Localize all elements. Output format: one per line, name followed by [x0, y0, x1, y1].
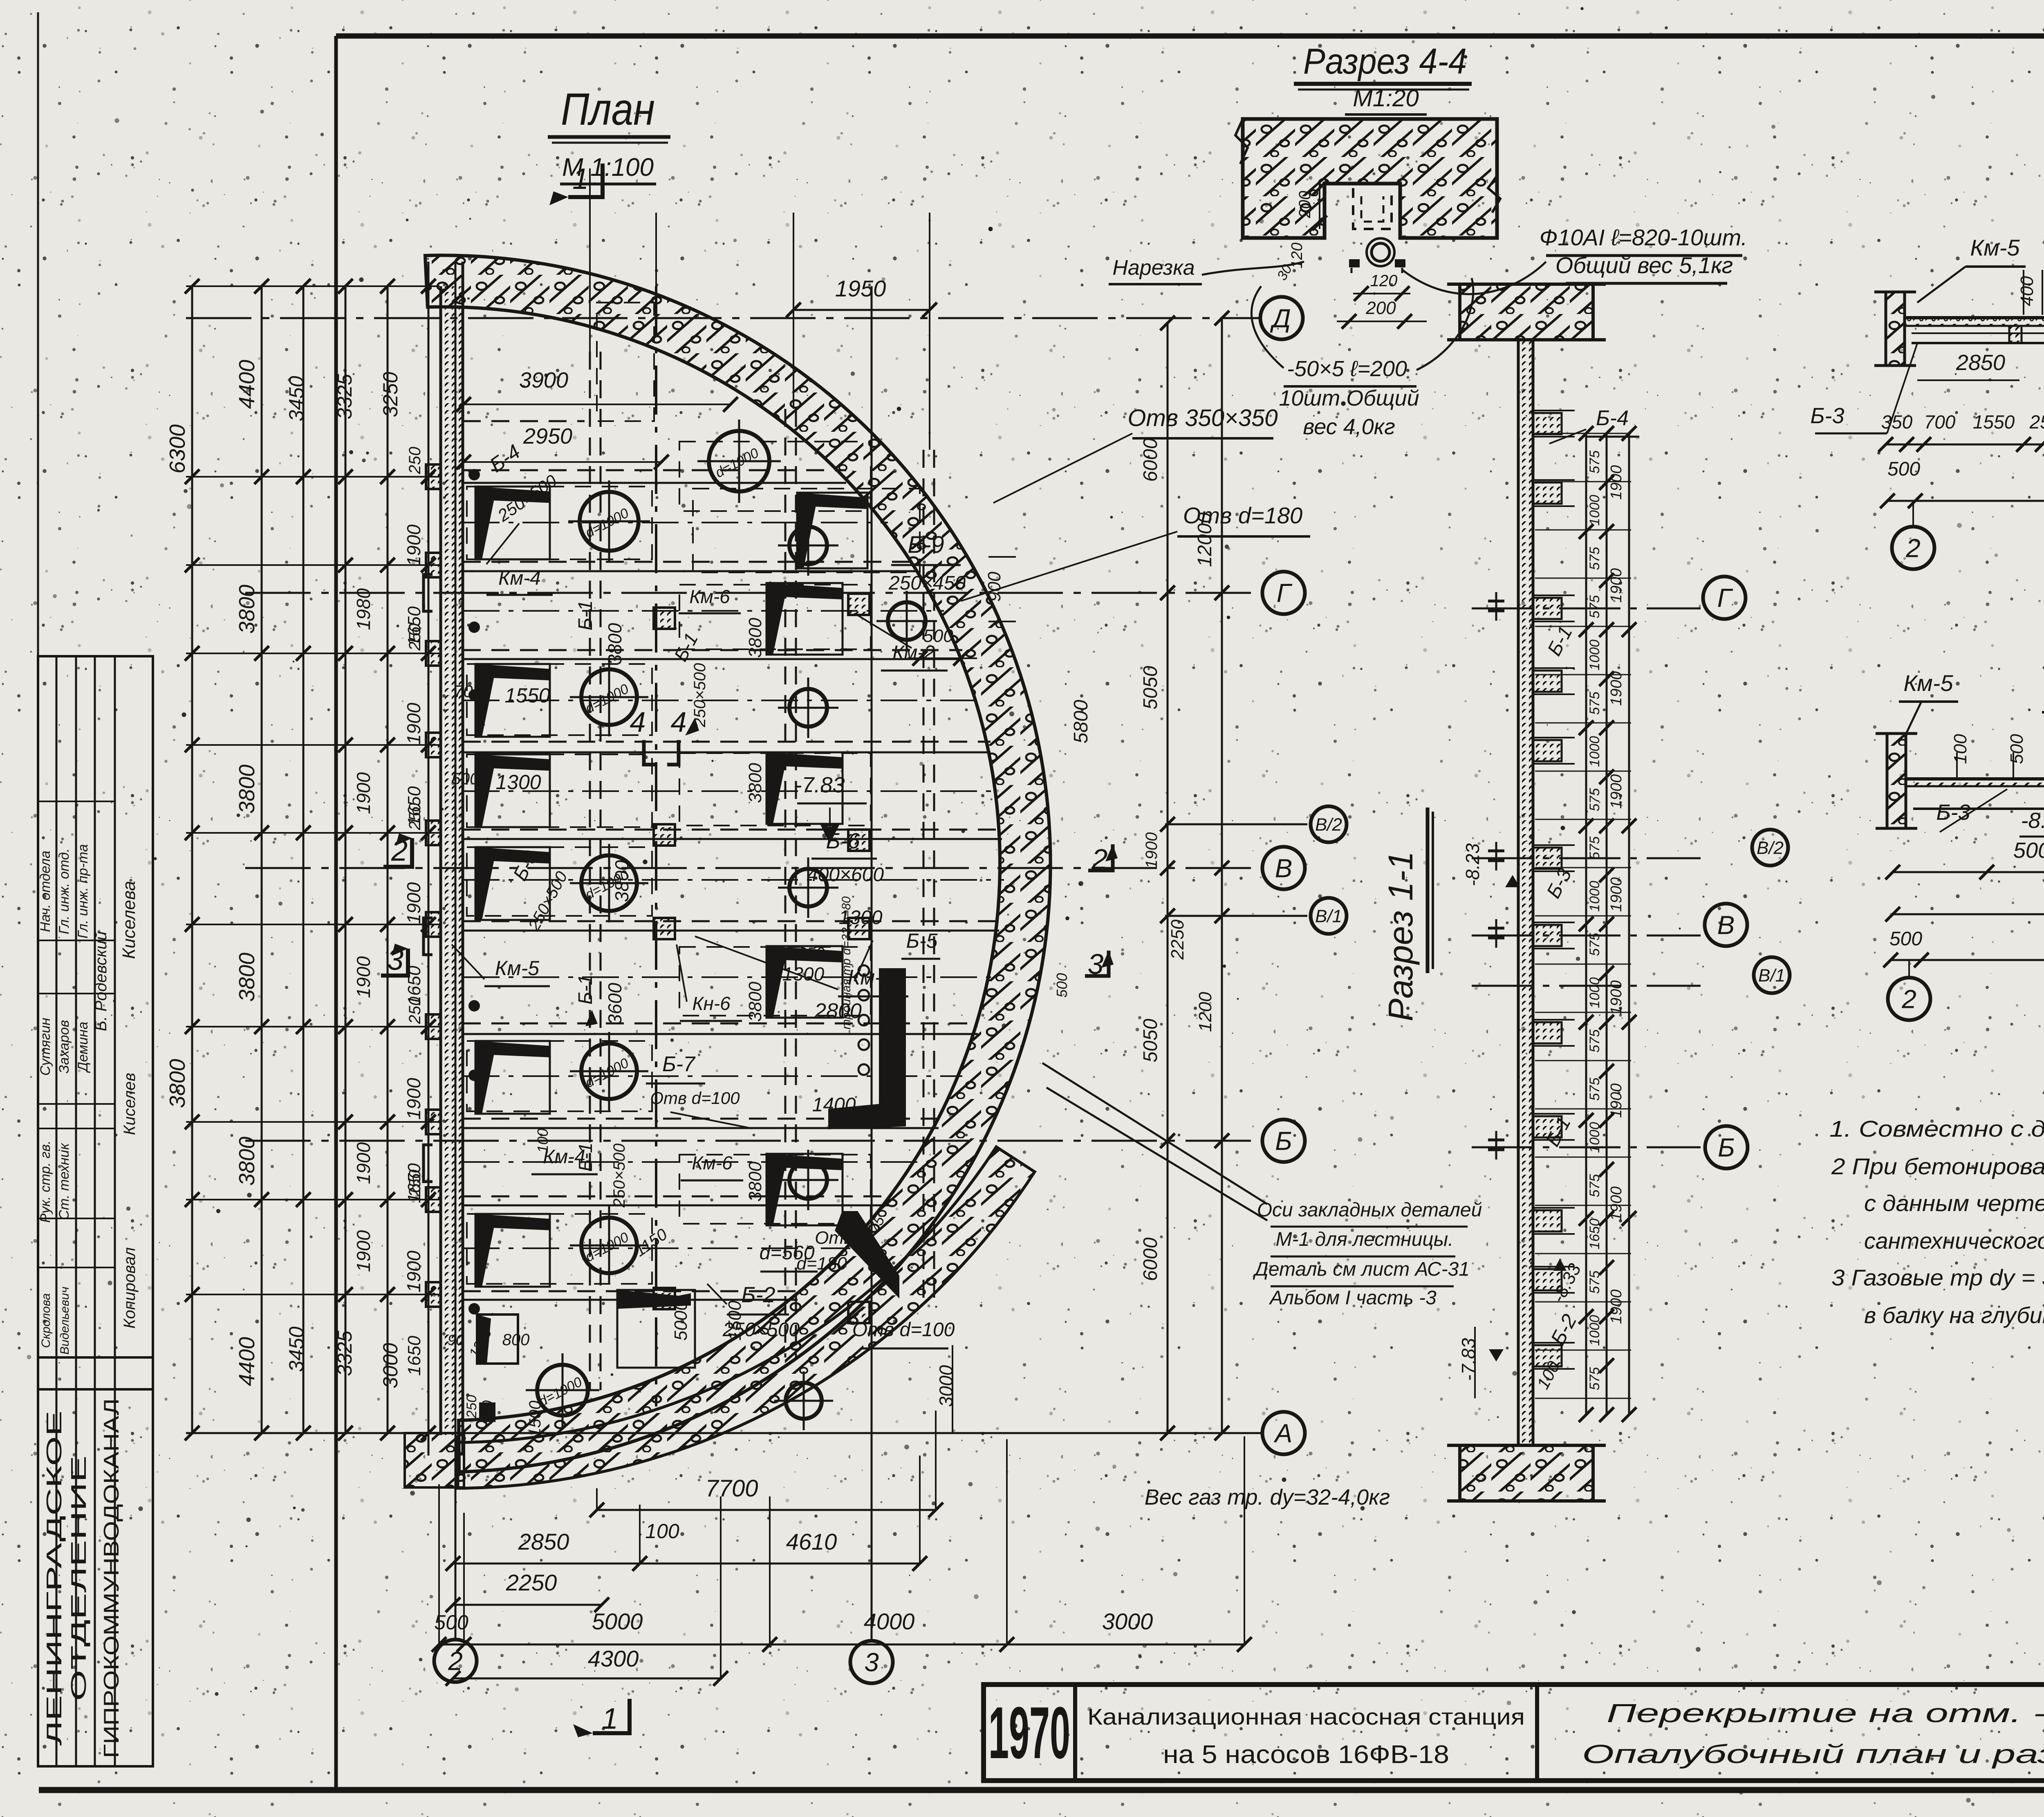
svg-text:1900: 1900: [1608, 774, 1625, 809]
svg-text:4400: 4400: [235, 1337, 259, 1386]
svg-text:575: 575: [1587, 1030, 1602, 1053]
svg-text:700: 700: [454, 682, 483, 701]
svg-text:1900: 1900: [353, 1142, 374, 1184]
svg-text:5000: 5000: [592, 1608, 643, 1634]
svg-text:12000: 12000: [1194, 512, 1216, 567]
svg-text:вес 4,0кг: вес 4,0кг: [1303, 415, 1395, 439]
svg-text:Отв d=100: Отв d=100: [852, 1319, 955, 1341]
svg-text:6300: 6300: [165, 424, 190, 473]
svg-text:1: 1: [602, 1703, 618, 1735]
svg-text:Деталь см лист АС-31: Деталь см лист АС-31: [1253, 1258, 1470, 1280]
svg-text:Д: Д: [1270, 303, 1291, 333]
dim 1950 top: [793, 309, 930, 311]
svg-text:2: 2: [1905, 533, 1921, 563]
svg-text:1000: 1000: [1587, 639, 1602, 671]
wall anchor brackets: [424, 574, 433, 611]
svg-text:Б: Б: [1275, 1126, 1292, 1155]
sheet bottom border: [39, 1787, 2044, 1793]
svg-text:Скролова: Скролова: [39, 1293, 53, 1348]
svg-text:500: 500: [1887, 458, 1920, 480]
svg-text:2800: 2800: [814, 999, 862, 1023]
svg-text:1900: 1900: [1608, 671, 1625, 706]
svg-text:Отв 350×350: Отв 350×350: [1127, 405, 1277, 431]
svg-text:1550: 1550: [1973, 411, 2015, 433]
1400 bent flag marker: [835, 1211, 899, 1299]
svg-text:Разрез 1-1: Разрез 1-1: [1381, 851, 1420, 1021]
svg-text:Киселева: Киселева: [119, 881, 139, 959]
svg-text:Оси закладных деталей: Оси закладных деталей: [1257, 1199, 1482, 1221]
svg-text:90: 90: [448, 1332, 464, 1348]
svg-text:1900: 1900: [1608, 980, 1625, 1015]
plan left wall strip: [441, 286, 463, 1435]
svg-text:-8.33: -8.33: [2021, 808, 2044, 833]
svg-text:1500: 1500: [725, 1301, 745, 1341]
section 2-2 left wall: [1886, 292, 1905, 366]
svg-text:250: 250: [406, 624, 424, 651]
anchor circle: [1372, 243, 1390, 261]
column head squares (hatched) mid column: [654, 608, 675, 629]
svg-text:250: 250: [406, 997, 424, 1025]
svg-text:Рук. стр. гв.: Рук. стр. гв.: [38, 1140, 53, 1223]
axis lines horizontal: [186, 317, 1260, 319]
svg-text:Б-5: Б-5: [906, 929, 937, 952]
break marks: [1235, 119, 1248, 164]
svg-text:Отв: Отв: [815, 1228, 853, 1248]
svg-text:Б-1: Б-1: [575, 974, 596, 1005]
grid axis bubble 2: [1888, 978, 1930, 1020]
svg-text:-7.83: -7.83: [1458, 1338, 1479, 1381]
svg-text:Общий вес 5,1кг: Общий вес 5,1кг: [1555, 252, 1733, 278]
svg-text:Нач. отдела: Нач. отдела: [38, 850, 53, 932]
svg-text:Сутягин: Сутягин: [38, 1018, 53, 1076]
svg-text:3600: 3600: [604, 983, 625, 1025]
svg-text:800: 800: [502, 1331, 530, 1349]
svg-text:650 650: 650 650: [766, 944, 825, 962]
svg-text:500: 500: [1053, 973, 1070, 998]
svg-text:575: 575: [1587, 1271, 1602, 1294]
svg-text:1900: 1900: [403, 702, 424, 745]
svg-text:1000: 1000: [1587, 1315, 1602, 1346]
svg-text:3325: 3325: [333, 374, 356, 419]
svg-text:Б-7: Б-7: [662, 1052, 696, 1076]
svg-text:3: 3: [864, 1647, 879, 1677]
svg-text:575: 575: [1587, 1174, 1602, 1198]
grid axis bubble В/2: [1311, 806, 1347, 842]
svg-text:1950: 1950: [835, 276, 886, 301]
svg-text:1900: 1900: [403, 882, 424, 924]
svg-text:1900: 1900: [353, 1230, 374, 1272]
svg-text:3800: 3800: [235, 953, 259, 1002]
svg-text:5050: 5050: [1140, 1018, 1161, 1062]
dashed beam panel rectangles: [467, 487, 652, 559]
top hole circle 250: [709, 431, 769, 491]
additional top bay dashes: [597, 303, 654, 421]
svg-text:1650: 1650: [404, 1336, 424, 1376]
svg-text:Захаров: Захаров: [56, 1020, 72, 1074]
hole at Б-9: [888, 602, 926, 640]
svg-text:4400: 4400: [235, 360, 259, 409]
grid axis bubble В/2: [1752, 830, 1788, 866]
svg-text:100: 100: [534, 1128, 551, 1153]
svg-text:500: 500: [2007, 734, 2027, 764]
svg-text:100: 100: [1950, 734, 1970, 764]
svg-text:4: 4: [671, 706, 687, 738]
svg-text:2950: 2950: [523, 424, 572, 449]
section mark 1 top: [568, 164, 603, 197]
svg-text:1000: 1000: [1587, 977, 1602, 1008]
bottom dashed rect 5000x1500: [617, 1290, 695, 1368]
svg-text:Б-1: Б-1: [575, 600, 596, 630]
svg-text:В/2: В/2: [1757, 838, 1784, 858]
bottom hole circle d=800: [537, 1365, 588, 1415]
svg-text:7700: 7700: [705, 1475, 758, 1502]
svg-text:Ф10АІ ℓ=820-10шт.: Ф10АІ ℓ=820-10шт.: [1540, 224, 1748, 250]
svg-text:3000: 3000: [1102, 1608, 1153, 1634]
svg-text:120: 120: [1370, 272, 1398, 290]
svg-text:250: 250: [2029, 411, 2044, 433]
svg-text:Копировал: Копировал: [121, 1247, 139, 1329]
svg-text:6000: 6000: [1140, 438, 1161, 482]
svg-text:250: 250: [464, 1395, 480, 1419]
grid axis bubble 2: [1892, 527, 1934, 569]
svg-text:1000: 1000: [1587, 1122, 1602, 1153]
section 1-1 bottom support block: [1460, 1445, 1593, 1501]
svg-text:Альбом I часть -3: Альбом I часть -3: [1269, 1287, 1437, 1309]
interior beam band lines: [463, 469, 846, 471]
svg-text:Нарезка: Нарезка: [1112, 256, 1195, 280]
svg-text:3250: 3250: [379, 372, 402, 417]
svg-text:4300: 4300: [588, 1646, 639, 1671]
svg-text:1300: 1300: [495, 771, 541, 794]
svg-text:Км-5: Км-5: [495, 957, 539, 980]
svg-text:3800: 3800: [745, 763, 765, 803]
svg-text:200: 200: [1365, 298, 1396, 318]
svg-text:10шт Общий: 10шт Общий: [1279, 386, 1419, 411]
grid axis bubble Д: [1260, 297, 1303, 339]
svg-text:-8.23: -8.23: [1462, 843, 1483, 886]
section 3-3 left wall: [1887, 734, 1906, 828]
svg-text:2850: 2850: [1956, 350, 2005, 375]
svg-text:1900: 1900: [1608, 1290, 1625, 1324]
svg-text:1900: 1900: [1608, 1187, 1625, 1221]
bay centre dash-dot lines: [463, 522, 888, 523]
right side vertical dims of plan: [1167, 323, 1169, 1433]
svg-text:d=560: d=560: [760, 1242, 815, 1264]
svg-text:Б-3: Б-3: [1936, 800, 1970, 825]
svg-text:1980: 1980: [353, 588, 374, 630]
vertical axis lines 2 and 3: [455, 262, 457, 1640]
slab opening wedges, right column: [797, 493, 867, 509]
svg-text:400×600: 400×600: [807, 864, 884, 886]
svg-text:2: 2: [1901, 984, 1916, 1014]
svg-text:3900: 3900: [519, 368, 568, 393]
sheet outer frame top border: [336, 34, 2044, 39]
svg-text:Г: Г: [1277, 578, 1293, 608]
svg-text:250×500: 250×500: [610, 1144, 628, 1208]
svg-text:Км-6: Км-6: [692, 1152, 733, 1173]
left margin signature table: [38, 656, 153, 1766]
grid axis bubble Б: [1262, 1119, 1305, 1162]
svg-text:6000: 6000: [1140, 1237, 1161, 1281]
svg-text:ЛЕНИНГРАДСКОЕ: ЛЕНИНГРАДСКОЕ: [43, 1411, 66, 1746]
svg-text:1900: 1900: [1143, 832, 1161, 869]
grid axis bubble В/1: [1754, 957, 1790, 993]
section 3-3 slab: [1905, 777, 2044, 781]
axis stubs crossing wall: [1472, 608, 1701, 610]
svg-text:Разрез 4-4: Разрез 4-4: [1303, 41, 1467, 81]
svg-text:Демина: Демина: [75, 1022, 91, 1073]
svg-text:Опалубочный план и разрезы: Опалубочный план и разрезы.: [1582, 1739, 2044, 1769]
plan outer ring wall (hatched annulus): [425, 255, 1051, 1472]
axis tick pairs: [1488, 600, 1504, 603]
svg-text:400: 400: [2017, 276, 2037, 306]
svg-text:575: 575: [1587, 1078, 1602, 1101]
svg-text:В/2: В/2: [1315, 814, 1342, 834]
svg-text:5000: 5000: [671, 1301, 691, 1341]
svg-text:-7.83: -7.83: [794, 773, 845, 797]
section 1-1 row extension lines: [1535, 433, 1631, 434]
svg-text:Км-5: Км-5: [1970, 235, 2020, 260]
svg-text:Г: Г: [1717, 583, 1733, 612]
gas pipe circles: [858, 965, 869, 976]
grid axis bubble В: [1705, 904, 1747, 946]
svg-text:3800: 3800: [745, 618, 765, 658]
outer apron wall band (lower right): [457, 1147, 1035, 1488]
section mark 1 bottom: [593, 1699, 630, 1733]
svg-text:3800: 3800: [235, 765, 259, 814]
svg-text:1900: 1900: [353, 772, 374, 814]
svg-text:3800: 3800: [235, 585, 259, 634]
channel nubs: [1349, 259, 1360, 267]
section 3-3 dims: [1893, 871, 2044, 873]
svg-text:Гл. инж. отд.: Гл. инж. отд.: [56, 848, 72, 934]
svg-text:Б: Б: [1718, 1133, 1735, 1162]
svg-text:Км-5: Км-5: [1903, 670, 1953, 696]
svg-text:5800: 5800: [1070, 700, 1092, 743]
svg-text:Км-6: Км-6: [689, 586, 730, 607]
svg-text:3 Газовые тр dу = 32 , дл: 3 Газовые тр dу = 32 , для стоек перил, …: [1831, 1265, 2044, 1290]
svg-text:В: В: [1717, 910, 1735, 940]
svg-text:1970: 1970: [988, 1692, 1070, 1774]
svg-text:В/1: В/1: [1758, 965, 1785, 985]
svg-text:Кн-6: Кн-6: [692, 993, 731, 1014]
section 1-1 top support block: [1460, 284, 1593, 340]
svg-text:1900: 1900: [403, 524, 424, 566]
svg-text:с данным чертежом пользова: с данным чертежом пользоваться чертежами: [1864, 1190, 2044, 1216]
grid axis bubble В: [1262, 847, 1305, 889]
sheet frame left border: [334, 36, 338, 1790]
svg-text:250: 250: [406, 1170, 424, 1198]
svg-text:1900: 1900: [403, 1078, 424, 1120]
grid axis bubble 2: [434, 1640, 477, 1682]
svg-text:3000: 3000: [935, 1365, 957, 1407]
svg-text:3800: 3800: [745, 982, 765, 1022]
svg-text:100: 100: [645, 1520, 679, 1543]
bottom extension verticals: [438, 1484, 440, 1644]
section 1-1 wall: [1518, 340, 1533, 1445]
svg-text:3325: 3325: [333, 1330, 356, 1376]
leader to stairs note: [1042, 1063, 1267, 1204]
svg-text:575: 575: [1587, 547, 1602, 570]
small anchor dots along wall: [468, 469, 480, 480]
svg-text:В/1: В/1: [1315, 906, 1342, 926]
svg-text:700: 700: [1924, 411, 1956, 433]
svg-text:А: А: [1273, 1418, 1293, 1448]
wall pilaster bumps: [426, 464, 441, 489]
svg-text:Б-3: Б-3: [1810, 404, 1844, 428]
svg-text:1900: 1900: [353, 956, 374, 998]
svg-text:3800: 3800: [611, 860, 632, 902]
slab sublines and beams: [1912, 342, 2044, 344]
section 2-2 slab: [1905, 316, 2044, 319]
svg-text:4610: 4610: [786, 1529, 837, 1555]
svg-text:200: 200: [1296, 191, 1314, 219]
title block: [984, 1685, 2044, 1781]
grid axis bubble Б: [1705, 1126, 1748, 1169]
svg-text:575: 575: [1587, 451, 1602, 474]
svg-text:575: 575: [1587, 692, 1602, 715]
svg-text:Км-3: Км-3: [848, 966, 894, 989]
svg-text:4000: 4000: [864, 1608, 915, 1634]
svg-text:1650: 1650: [1587, 1218, 1602, 1249]
svg-text:575: 575: [1587, 595, 1602, 619]
svg-text:5000: 5000: [2013, 838, 2044, 863]
grid axis bubble Г: [1703, 577, 1746, 619]
svg-text:500: 500: [452, 770, 479, 788]
svg-text:3800: 3800: [604, 623, 625, 665]
svg-text:1500: 1500: [526, 1401, 544, 1437]
svg-text:ГИПРОКОММУНВОДОКАНАЛ: ГИПРОКОММУНВОДОКАНАЛ: [100, 1398, 123, 1758]
svg-text:3450: 3450: [285, 1326, 308, 1372]
svg-text:1900: 1900: [1608, 877, 1625, 912]
section 4-4 slab block: [1243, 119, 1497, 238]
svg-text:на 5 насосов 16ФВ-18: на 5 насосов 16ФВ-18: [1163, 1741, 1449, 1769]
svg-text:575: 575: [1587, 1367, 1602, 1391]
svg-text:3450: 3450: [285, 376, 308, 421]
hole d=560: [786, 1383, 822, 1419]
section 2-2 dims: [1886, 444, 2044, 446]
svg-text:1900: 1900: [403, 1250, 424, 1292]
svg-text:1900: 1900: [1608, 465, 1625, 500]
svg-text:Видельевич: Видельевич: [58, 1287, 72, 1355]
svg-text:в балку на глубину: в балку на глубину h = 50 .: [1864, 1302, 2044, 1328]
svg-text:2850: 2850: [518, 1529, 569, 1555]
svg-text:900: 900: [984, 572, 1004, 602]
svg-text:1300: 1300: [782, 963, 825, 985]
slab opening wedges, left column: [475, 487, 550, 503]
svg-text:3800: 3800: [745, 1162, 765, 1202]
svg-text:Гл. инж. пр-та: Гл. инж. пр-та: [75, 844, 91, 939]
hole circles with center crosses, left column: [580, 492, 639, 551]
grid axis bubble 3: [850, 1641, 893, 1683]
svg-text:План: План: [561, 84, 655, 135]
svg-text:250×500: 250×500: [691, 663, 709, 728]
svg-text:575: 575: [1587, 788, 1602, 812]
svg-text:Перекрытие на отм. - 7.80: Перекрытие на отм. - 7.80: [1607, 1698, 2044, 1728]
svg-text:М1:20: М1:20: [1353, 85, 1419, 112]
svg-text:2250: 2250: [506, 1570, 557, 1595]
ledge step outlines: [1533, 410, 1575, 411]
bottom small opening rects: [477, 1315, 518, 1364]
svg-text:5050: 5050: [1140, 666, 1161, 709]
svg-text:1000: 1000: [1587, 495, 1602, 526]
grid axis bubble Г: [1262, 572, 1305, 614]
svg-text:Б-6: Б-6: [826, 829, 860, 853]
svg-text:М-1 для лестницы.: М-1 для лестницы.: [1276, 1229, 1454, 1250]
svg-text:500: 500: [434, 1611, 468, 1634]
svg-text:1. Совместно с данным лис: 1. Совместно с данным листом см · листы …: [1829, 1116, 2044, 1142]
svg-text:Км-4: Км-4: [498, 568, 541, 589]
svg-text:250: 250: [406, 447, 424, 475]
svg-text:350: 350: [1881, 411, 1913, 433]
svg-text:Ст. техник: Ст. техник: [56, 1142, 72, 1220]
gas pipe black flag marker: [828, 968, 906, 1129]
svg-text:1000: 1000: [1587, 881, 1602, 912]
svg-text:сантехнического , электротехни: сантехнического , электротехнического об…: [1864, 1228, 2044, 1254]
hole circles right column: [789, 527, 827, 564]
embedded channel dashed: [1353, 188, 1392, 229]
svg-text:250×450: 250×450: [888, 572, 966, 594]
svg-text:1200: 1200: [1195, 992, 1215, 1032]
svg-text:Отв d=100: Отв d=100: [650, 1088, 740, 1108]
column head squares right column: [848, 594, 870, 615]
svg-text:575: 575: [1587, 933, 1602, 956]
svg-text:575: 575: [1587, 837, 1602, 860]
svg-text:3000: 3000: [379, 1343, 402, 1388]
svg-text:Канализационная насосная ста: Канализационная насосная станция: [1087, 1704, 1525, 1730]
left dimension chains: [186, 285, 439, 287]
grid axis bubble А: [1262, 1412, 1305, 1454]
grid axis bubble В/1: [1311, 898, 1347, 934]
section 1-1 dim chains: [1585, 433, 1587, 1415]
svg-text:ОТДЕЛЕНИЕ: ОТДЕЛЕНИЕ: [67, 1456, 91, 1701]
svg-text:Б-9: Б-9: [908, 532, 944, 558]
svg-text:Вес газ тр. dу=32-4,0кг: Вес газ тр. dу=32-4,0кг: [1145, 1485, 1390, 1510]
svg-text:3800: 3800: [165, 1059, 190, 1108]
section 4-4 cut line (dash-dot): [655, 286, 657, 1406]
svg-text:-50×5 ℓ=200: -50×5 ℓ=200: [1287, 357, 1407, 381]
svg-text:В: В: [1275, 853, 1293, 883]
svg-text:1900: 1900: [1608, 1083, 1625, 1118]
left margin table edge: [37, 12, 39, 1766]
svg-text:1900: 1900: [1608, 568, 1625, 603]
svg-text:Киселев: Киселев: [121, 1073, 139, 1135]
svg-text:1550: 1550: [504, 684, 550, 707]
interior vertical dashed beams: [589, 352, 591, 1390]
svg-text:2 При бетонировании перекр: 2 При бетонировании перекрытия одновреме…: [1831, 1153, 2044, 1179]
svg-text:1000: 1000: [1587, 736, 1602, 767]
svg-text:Б-2: Б-2: [741, 1283, 775, 1307]
svg-text:300: 300: [479, 1400, 496, 1425]
svg-text:3800: 3800: [235, 1137, 259, 1186]
svg-text:2250: 2250: [1168, 920, 1188, 960]
wall beam ledges: [1533, 413, 1562, 434]
svg-text:1: 1: [572, 163, 589, 195]
svg-text:Б. Родевский: Б. Родевский: [92, 931, 110, 1031]
svg-text:500: 500: [923, 626, 953, 646]
svg-text:1400: 1400: [812, 1094, 856, 1116]
svg-text:500: 500: [1889, 928, 1922, 950]
svg-text:250: 250: [406, 803, 424, 831]
wall foot block bottom-left: [405, 1433, 464, 1487]
top extension lines: [589, 168, 591, 352]
